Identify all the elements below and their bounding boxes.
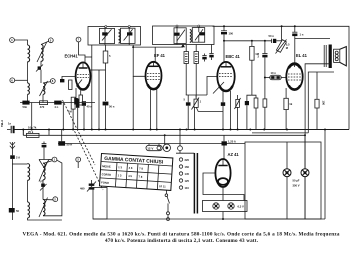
capacitor below IFT2 [202,54,206,62]
transformer core [194,153,197,214]
trimmer VC between coils [36,61,43,83]
wire: EBC41 anode to bus cap [221,26,233,62]
resistor mid chain [252,95,258,129]
capacitor 2n antenna [10,155,20,208]
coil L6 osc upper tuned [39,162,48,182]
coil L8 osc lower tuned [39,198,48,218]
tube ECH41 [65,54,91,90]
choke 50H on third bus [58,141,72,146]
capacitor 2n coupling chain [258,41,268,130]
wire: ECH41 anode right [90,69,105,71]
svg-text:EL 41: EL 41 [296,53,308,58]
dashed gang line 1 [63,100,96,165]
wire: EBC41 cathode [230,91,232,130]
wire: anode coupling run [224,40,272,42]
wire: speaker return 1 [305,64,330,219]
mains switch [165,191,169,221]
svg-text:350 V: 350 V [293,184,300,188]
junction dots bus1 [22,129,306,137]
resistor screen 100 [315,72,326,130]
svg-text:12 V: 12 V [147,147,153,151]
svg-text:EBC 41: EBC 41 [226,54,241,59]
coil IFT2 [190,29,192,42]
wire: EL41 grid line [265,77,270,79]
resistor 1M vertical [68,97,75,113]
trimmer cap IFT1-a [100,26,115,46]
capacitor C-tela (series in bus left) [7,122,15,134]
coil IFT1 [119,30,121,44]
capacitor 50n (row) [22,101,29,109]
wire: bottom bus [93,218,325,220]
wire: vertical joining buses left [22,130,24,136]
coil L1 SW antenna [28,45,30,62]
resistor below ECH grid [69,80,72,90]
antenna symbol [10,142,15,155]
svg-text:50n: 50n [23,105,28,109]
terminal 8 [43,79,55,84]
wire: terminal 3 drop [77,162,79,168]
svg-text:MEDIE: MEDIE [102,164,111,169]
svg-text:TELA: TELA [0,120,4,127]
wire: main B+ bus [15,129,350,131]
wire: speaker return 2 [308,72,334,133]
svg-text:50 µF: 50 µF [293,179,300,183]
wire: pot drop from bus [281,26,283,41]
resistor below IFT2 a [184,45,188,96]
capacitor grid EBC [221,102,225,129]
terminal circle 11 [178,129,183,151]
potentiometer volume [192,95,223,130]
svg-text:ECH41: ECH41 [65,54,79,59]
heater winding with dial lamps [203,201,248,212]
capacitor 1n top [292,26,304,38]
svg-text:470 kc/s. Potenza indistorta d: 470 kc/s. Potenza indistorta di uscita 2… [105,238,259,244]
svg-text:40 n: 40 n [87,105,93,109]
IF transformer 1 box [85,27,141,130]
resistor R-avv (loop below bus) [23,126,39,138]
coil L2 SW tuned [37,43,47,63]
coil L4 MW tuned [40,81,48,96]
power transformer outline box [245,142,321,219]
capacitor 50n series [269,34,282,43]
capacitor at ECH grid [60,79,64,82]
svg-text:125: 125 [185,179,190,183]
dial lamp pill [146,144,162,151]
coil L5 osc upper left [28,164,30,181]
wire: EBC41 grid cap drop [222,91,224,103]
tube AZ41 [215,152,239,187]
wire: L1 bottom to L3 [27,62,29,83]
svg-text:2 A: 2 A [16,156,20,160]
potentiometer tone (slanted) [276,40,291,54]
capacitor small right of IFT2 [209,45,213,61]
svg-text:1 n: 1 n [300,33,304,37]
terminal 4 [10,38,28,45]
svg-text:10 11: 10 11 [159,184,166,188]
junction dots top [223,25,296,42]
svg-text:1,25 A: 1,25 A [228,140,236,144]
oscillator terminal 3 [76,157,81,162]
svg-text:10 n: 10 n [271,71,277,75]
svg-text:50: 50 [16,209,19,213]
terminal 7 [76,37,85,63]
wire: EL41 cathode [285,88,287,98]
svg-text:50 n: 50 n [269,34,275,38]
wire: AZ41 side loop [203,173,244,201]
wire: row drops to bus [31,103,33,130]
svg-text:6,3 V: 6,3 V [238,204,244,208]
wire: ECH41 grid left [62,77,76,80]
resistor below IFT2 b [194,45,198,98]
IF transformer 2 box [153,26,215,45]
terminal 6 [10,78,28,83]
wire: IFT1 to EF41 grid [133,45,145,76]
capacitor 50n vertical [82,102,92,109]
dial frame rect [93,188,107,220]
tap arrowhead below IFT2 [181,44,185,47]
earth arrow symbol [39,142,52,168]
capacitor 10n grid series [270,71,282,80]
tube EL41 [286,53,307,90]
electrolytic capacitor 1 [283,142,291,219]
tube EF41 [146,53,166,89]
electrolytic capacitor 2 [293,135,310,219]
resistor below IFT1 [103,45,111,101]
svg-text:100: 100 [322,101,326,106]
variable capacitor 490 [80,180,96,192]
svg-text:50 H: 50 H [67,143,73,147]
svg-text:470: 470 [40,105,45,109]
capacitor 5n to bus [245,95,252,129]
wire: feedback line [252,132,308,134]
resistor 1M grid chain [250,41,260,95]
svg-text:25 k: 25 k [28,130,34,134]
dashed gang line 2 [73,128,103,190]
capacitor 50n mid [103,102,115,130]
wire: second bus [23,134,305,136]
trimmer cap IFT1-b [121,26,136,46]
svg-text:1n: 1n [8,122,11,126]
voltage selector taps [179,158,189,190]
capacitor ECH cathode [74,98,78,105]
cone [340,47,347,66]
oscillator terminal 2 [53,197,58,202]
wire: top bus [213,26,350,129]
svg-text:4 n: 4 n [54,105,58,109]
trimmer cap IFT2-a [174,25,186,45]
svg-text:1k: 1k [289,102,292,106]
wire: EL41 anode to speaker [295,39,330,64]
magnet bar [329,45,332,69]
GAMMA CONTAT CHIUSI table [99,154,172,191]
wire: osc connections [12,160,62,220]
svg-text:490: 490 [80,187,85,191]
svg-text:110: 110 [185,186,190,190]
svg-text:EF 41: EF 41 [154,53,166,58]
svg-text:160: 160 [185,165,190,169]
wire: EF41 bottom drops [150,89,152,130]
wire: ECH41 bottom drops [75,88,77,98]
svg-text:VEGA - Mod. 621. Onde medie da: VEGA - Mod. 621. Onde medie da 530 a 162… [23,232,340,238]
wire: AZ41 bottom [222,187,224,201]
speaker pot body [334,49,340,62]
resistor EL41 cathode [284,98,293,129]
speaker group [305,45,346,220]
resistor ECH cathode [79,95,83,105]
coil L7 osc lower left [28,202,30,218]
trimmer VT [40,180,47,191]
capacitor 4n (row) [54,101,61,109]
svg-text:AZ 41: AZ 41 [228,152,240,157]
tube EBC41 [213,54,241,94]
terminal 5 [41,38,53,45]
resistor 470 (row) [40,101,48,109]
fuse on bus3 [222,135,236,159]
trimmer cap IFT2-b [192,25,204,42]
wire: EBC grid [207,77,217,96]
wire: third bus with choke [58,143,245,145]
capacitor 50 osc [9,208,20,220]
svg-text:220: 220 [185,158,190,162]
svg-text:50 n: 50 n [109,105,115,109]
potentiometer diode load [235,95,241,130]
capacitor left of pot [184,95,208,130]
svg-text:CORTE: CORTE [102,172,112,177]
phono jack double circle [163,135,170,151]
wire: grid row [20,94,95,102]
svg-text:145: 145 [185,172,190,176]
oscillator terminal 1 [52,157,57,162]
coil L3 MW antenna [28,83,30,94]
svg-text:100: 100 [229,32,234,36]
output transformer winding [323,45,325,67]
svg-text:FONO: FONO [101,180,109,184]
capacitor vertical blk [76,99,79,108]
